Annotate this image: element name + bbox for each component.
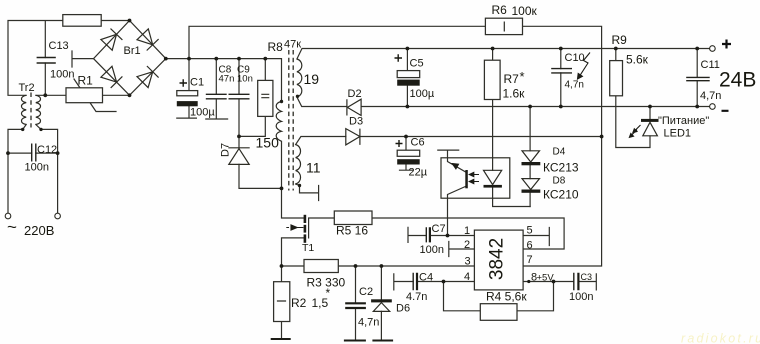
- svg-text:4,7n: 4,7n: [358, 317, 379, 329]
- svg-text:1.6к: 1.6к: [503, 87, 526, 101]
- svg-text:C10: C10: [565, 52, 585, 64]
- svg-text:R4 5,6к: R4 5,6к: [486, 290, 527, 304]
- svg-text:Tr2: Tr2: [19, 82, 35, 94]
- svg-text:47к: 47к: [284, 39, 301, 51]
- svg-text:~: ~: [7, 218, 17, 237]
- svg-text:19: 19: [304, 71, 320, 87]
- svg-text:C11: C11: [701, 59, 720, 71]
- svg-text:100n: 100n: [569, 291, 593, 303]
- svg-text:6: 6: [527, 240, 533, 252]
- svg-text:7: 7: [527, 254, 533, 266]
- svg-text:C6: C6: [411, 137, 425, 149]
- svg-text:C13: C13: [49, 40, 69, 52]
- svg-text:D8: D8: [553, 176, 566, 187]
- svg-text:4,7n: 4,7n: [700, 90, 721, 102]
- svg-text:4.7n: 4.7n: [406, 291, 427, 303]
- svg-text:C1: C1: [190, 77, 204, 89]
- svg-text:D7: D7: [220, 143, 232, 157]
- svg-text:10n: 10n: [237, 74, 253, 85]
- svg-text:3: 3: [465, 256, 471, 268]
- svg-text:D6: D6: [396, 303, 410, 315]
- svg-text:4: 4: [464, 271, 470, 283]
- svg-text:C12: C12: [37, 144, 57, 156]
- svg-text:"Питание": "Питание": [658, 115, 709, 127]
- svg-text:R2: R2: [291, 296, 307, 310]
- svg-text:100µ: 100µ: [410, 88, 435, 100]
- svg-text:3842: 3842: [487, 238, 508, 280]
- svg-text:R6: R6: [492, 3, 508, 17]
- svg-text:Br1: Br1: [124, 45, 141, 57]
- svg-text:R8: R8: [268, 40, 284, 54]
- svg-text:C3: C3: [581, 272, 593, 282]
- svg-text:24В: 24В: [719, 69, 756, 92]
- svg-text:КС213: КС213: [543, 161, 579, 175]
- svg-text:100к: 100к: [512, 4, 538, 18]
- svg-text:C7: C7: [432, 223, 446, 235]
- svg-text:5.6к: 5.6к: [626, 53, 649, 67]
- svg-text:LED1: LED1: [664, 128, 692, 140]
- svg-text:47n: 47n: [219, 74, 235, 85]
- svg-text:+5V: +5V: [537, 273, 555, 284]
- svg-text:radiokot.ru: radiokot.ru: [681, 332, 760, 344]
- svg-text:100n: 100n: [420, 244, 444, 256]
- svg-text:D3: D3: [349, 116, 363, 128]
- svg-text:4,7n: 4,7n: [565, 80, 584, 91]
- svg-text:C4: C4: [419, 272, 433, 284]
- svg-text:*: *: [326, 286, 331, 300]
- svg-text:150: 150: [256, 135, 280, 151]
- svg-text:D2: D2: [348, 88, 362, 100]
- svg-text:11: 11: [306, 160, 321, 176]
- svg-text:100n: 100n: [50, 69, 74, 81]
- svg-text:T1: T1: [302, 242, 314, 254]
- svg-text:*: *: [520, 69, 525, 84]
- svg-text:1: 1: [464, 225, 470, 237]
- svg-text:R7: R7: [504, 72, 520, 86]
- svg-text:2: 2: [464, 239, 470, 251]
- svg-text:5: 5: [527, 225, 533, 237]
- svg-text:220В: 220В: [24, 223, 54, 238]
- svg-text:КС210: КС210: [543, 188, 579, 202]
- svg-text:R5 16: R5 16: [336, 224, 368, 238]
- svg-text:22µ: 22µ: [409, 167, 428, 179]
- svg-text:C2: C2: [359, 286, 373, 298]
- svg-text:100n: 100n: [25, 162, 49, 174]
- svg-text:R1: R1: [78, 74, 94, 88]
- svg-text:R9: R9: [612, 33, 628, 47]
- svg-text:D4: D4: [553, 147, 566, 158]
- svg-text:100µ: 100µ: [190, 107, 215, 119]
- svg-text:C5: C5: [410, 58, 424, 70]
